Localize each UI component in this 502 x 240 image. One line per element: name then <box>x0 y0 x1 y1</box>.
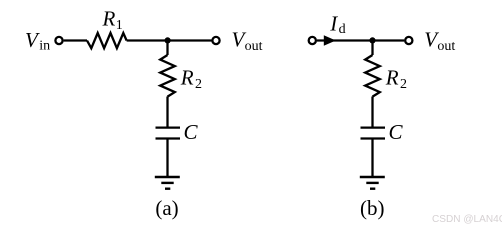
capacitor C (b) top plate <box>361 126 386 128</box>
wire node B to Vout terminal (b) <box>373 39 405 41</box>
terminal Vout (b) <box>405 37 412 44</box>
wire R2 to capacitor C (b) <box>371 97 373 127</box>
svg-text:CSDN @LAN4C: CSDN @LAN4C <box>432 213 502 225</box>
current arrow Id <box>324 35 336 45</box>
node A junction dot <box>165 37 171 43</box>
svg-text:(a): (a) <box>155 196 178 220</box>
svg-text:R: R <box>385 65 399 89</box>
wire node A to Vout terminal <box>168 39 212 41</box>
wire capacitor to ground (b) <box>371 140 373 177</box>
label R1 <box>102 6 123 33</box>
terminal Id input <box>309 37 316 44</box>
svg-text:V: V <box>25 28 40 52</box>
svg-text:I: I <box>329 12 338 36</box>
svg-text:2: 2 <box>400 77 407 92</box>
wire Vin to R1 <box>64 39 87 41</box>
capacitor C (b) bottom plate <box>361 137 386 139</box>
svg-text:out: out <box>437 39 455 54</box>
terminal Vin <box>55 37 62 44</box>
label Vout (b) <box>424 28 455 55</box>
resistor R1 <box>87 33 127 48</box>
terminal Vout (a) <box>212 37 219 44</box>
wire node A down to R2 <box>166 41 168 56</box>
label Vin <box>25 28 50 54</box>
resistor R2 (b) <box>365 55 380 97</box>
svg-text:C: C <box>184 120 199 144</box>
capacitor C (a) bottom plate <box>156 137 181 139</box>
svg-text:in: in <box>39 39 50 54</box>
ground (b) <box>360 177 385 189</box>
svg-text:d: d <box>339 22 346 37</box>
resistor R2 (a) <box>160 55 175 97</box>
svg-text:out: out <box>245 39 263 54</box>
wire R1 to node A <box>127 39 168 41</box>
svg-text:C: C <box>389 120 404 144</box>
svg-text:2: 2 <box>195 77 202 92</box>
wire Id terminal to node B <box>317 39 373 41</box>
svg-text:R: R <box>102 6 116 30</box>
label R2 (b) <box>385 65 407 92</box>
wire capacitor to ground (a) <box>166 140 168 177</box>
wire node B down to R2 (b) <box>371 41 373 56</box>
label Vout (a) <box>232 28 263 55</box>
capacitor C (a) top plate <box>156 126 181 128</box>
svg-text:(b): (b) <box>360 196 385 220</box>
svg-text:R: R <box>180 65 194 89</box>
label Id <box>329 12 345 38</box>
label R2 (a) <box>180 65 202 92</box>
node B junction dot <box>369 37 375 43</box>
wire R2 to capacitor C (a) <box>166 97 168 127</box>
ground (a) <box>155 177 180 189</box>
svg-text:1: 1 <box>116 18 123 33</box>
